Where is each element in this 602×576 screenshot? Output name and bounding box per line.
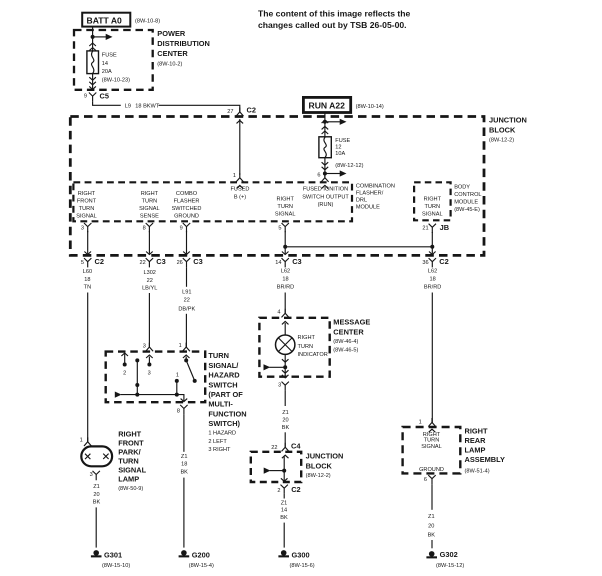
connector C2 pin 2 <box>277 485 300 495</box>
svg-text:SIGNAL: SIGNAL <box>422 211 443 217</box>
svg-text:C2: C2 <box>95 257 104 266</box>
wire Z1 18 BK <box>183 414 185 452</box>
svg-text:LAMP: LAMP <box>118 475 139 484</box>
svg-text:(8W-15-12): (8W-15-12) <box>436 563 464 569</box>
wire L60 18 TN <box>83 269 92 291</box>
svg-text:C5: C5 <box>100 91 109 100</box>
svg-text:3: 3 <box>81 226 84 232</box>
svg-text:DISTRIBUTION: DISTRIBUTION <box>157 39 210 48</box>
svg-text:L9: L9 <box>125 103 131 109</box>
lamp name label <box>118 430 146 493</box>
power distribution center box <box>74 29 210 90</box>
node message center splice <box>283 365 287 369</box>
switch contact 3 stub <box>147 357 151 377</box>
pin 5 right turn signal output <box>278 223 289 232</box>
svg-text:MULTI-: MULTI- <box>208 400 233 409</box>
junction block box <box>70 116 526 256</box>
connector pin 3 message center <box>278 382 289 391</box>
svg-text:6: 6 <box>424 477 427 483</box>
svg-text:1: 1 <box>80 438 83 444</box>
svg-text:1: 1 <box>233 173 236 179</box>
svg-text:FRONT: FRONT <box>118 439 144 448</box>
svg-text:REAR: REAR <box>465 436 487 445</box>
svg-text:L62: L62 <box>281 269 290 275</box>
svg-text:SWITCH): SWITCH) <box>208 419 240 428</box>
svg-text:2: 2 <box>277 488 280 494</box>
svg-text:G300: G300 <box>292 551 310 560</box>
svg-text:RUN A22: RUN A22 <box>309 101 346 111</box>
node batt splice <box>91 35 95 39</box>
svg-text:RIGHT: RIGHT <box>424 196 442 202</box>
ground G301 <box>91 550 130 569</box>
svg-text:C2: C2 <box>247 105 256 114</box>
svg-text:2: 2 <box>123 371 126 377</box>
connector C3 pin 14 <box>275 257 301 267</box>
svg-text:FLASHER/: FLASHER/ <box>356 191 384 197</box>
node run splice <box>323 120 327 124</box>
svg-text:(8W-15-6): (8W-15-6) <box>290 563 315 569</box>
connector C2 pin 5 <box>81 257 104 267</box>
svg-text:CENTER: CENTER <box>333 328 364 337</box>
svg-text:(8W-51-4): (8W-51-4) <box>465 469 490 475</box>
svg-text:SIGNAL: SIGNAL <box>421 444 442 450</box>
svg-text:(PART OF: (PART OF <box>208 390 243 399</box>
pin 9 combo flasher switched ground <box>180 223 191 232</box>
pin 21 JB body control module <box>422 223 449 233</box>
svg-text:18: 18 <box>429 277 435 283</box>
fuse F12 <box>319 137 364 169</box>
svg-text:MODULE: MODULE <box>356 205 380 211</box>
connector pin 3 lamp <box>90 471 100 480</box>
svg-text:36: 36 <box>422 260 428 266</box>
node splice at BCM column <box>430 245 434 249</box>
svg-text:27: 27 <box>227 109 233 115</box>
svg-text:COMBINATION: COMBINATION <box>356 184 395 190</box>
right rear lamp name label <box>465 427 505 475</box>
svg-text:18 BKWT: 18 BKWT <box>135 103 160 109</box>
svg-text:G302: G302 <box>440 550 458 559</box>
svg-text:BR/RD: BR/RD <box>424 285 441 291</box>
ground G200 <box>179 550 214 569</box>
svg-text:G200: G200 <box>192 551 210 560</box>
node splice to BCM run <box>283 245 287 249</box>
svg-text:14: 14 <box>281 508 287 514</box>
wire into combination flasher <box>324 174 326 178</box>
node pin 6 splice <box>323 172 327 176</box>
svg-text:RIGHT: RIGHT <box>465 427 488 436</box>
svg-text:22: 22 <box>147 278 153 284</box>
svg-text:BLOCK: BLOCK <box>489 126 516 135</box>
wire L62 18 BR/RD right <box>424 269 441 291</box>
svg-text:14: 14 <box>102 61 108 67</box>
svg-text:DB/PK: DB/PK <box>178 306 195 312</box>
wire splice arrow from left <box>270 470 285 472</box>
svg-text:LAMP: LAMP <box>465 446 486 455</box>
svg-text:8: 8 <box>143 226 146 232</box>
svg-text:5: 5 <box>81 260 84 266</box>
svg-text:RIGHT: RIGHT <box>298 335 316 341</box>
connector chevrons at MC exit <box>282 370 289 373</box>
svg-text:ASSEMBLY: ASSEMBLY <box>465 455 505 464</box>
svg-text:L302: L302 <box>143 270 155 276</box>
svg-text:21: 21 <box>422 226 428 232</box>
connector C2 pin 36 <box>422 257 448 267</box>
svg-text:Z1: Z1 <box>181 454 188 460</box>
svg-text:FRONT: FRONT <box>77 199 97 205</box>
svg-text:(8W-10-14): (8W-10-14) <box>356 104 384 110</box>
svg-text:3: 3 <box>278 383 281 389</box>
svg-text:22: 22 <box>271 445 277 451</box>
wire run splice arrow right <box>325 121 340 123</box>
svg-text:RIGHT: RIGHT <box>276 196 294 202</box>
svg-text:SIGNAL: SIGNAL <box>118 466 146 475</box>
body control module box <box>414 182 451 220</box>
svg-text:FUNCTION: FUNCTION <box>208 409 246 418</box>
svg-text:(8W-46-4): (8W-46-4) <box>333 339 358 345</box>
svg-text:DRL: DRL <box>356 198 367 204</box>
svg-text:22: 22 <box>139 260 145 266</box>
ground G302 <box>426 550 464 569</box>
svg-text:TN: TN <box>84 285 91 291</box>
svg-text:26: 26 <box>177 260 183 266</box>
svg-text:9: 9 <box>84 94 87 100</box>
svg-text:JUNCTION: JUNCTION <box>489 116 527 125</box>
wire below fuse 12 <box>324 158 326 174</box>
svg-text:TURN: TURN <box>298 344 314 350</box>
turn signal / hazard switch box <box>106 351 247 453</box>
svg-text:5: 5 <box>278 226 281 232</box>
wire L302 22 LB/YL <box>142 270 157 291</box>
svg-text:1: 1 <box>419 420 422 426</box>
svg-text:JUNCTION: JUNCTION <box>306 452 344 461</box>
lamp right turn indicator <box>276 335 328 358</box>
svg-text:RIGHT: RIGHT <box>78 191 96 197</box>
svg-text:14: 14 <box>275 260 281 266</box>
node lower JB splice <box>282 469 286 473</box>
wire L62 18 BR/RD left <box>277 269 294 291</box>
svg-text:RIGHT: RIGHT <box>118 430 141 439</box>
svg-text:22: 22 <box>184 297 190 303</box>
wire Z1 20 BK rear <box>431 484 433 509</box>
svg-text:The content of this image refl: The content of this image reflects the <box>258 8 411 18</box>
svg-text:C3: C3 <box>156 257 165 266</box>
wire below indicator <box>284 354 286 375</box>
svg-text:C3: C3 <box>193 257 202 266</box>
svg-text:Z1: Z1 <box>281 500 288 506</box>
battery feed BATT A0 <box>82 13 160 27</box>
wire to indicator lamp <box>284 323 286 335</box>
svg-text:SWITCH: SWITCH <box>208 380 237 389</box>
svg-text:MODULE: MODULE <box>454 200 478 206</box>
wire through lower JB <box>283 457 285 481</box>
svg-text:2 LEFT: 2 LEFT <box>208 439 227 445</box>
connector chevrons below fuse 12 <box>322 162 329 165</box>
svg-text:JB: JB <box>440 223 449 232</box>
wire splice arrow right <box>93 36 106 38</box>
svg-text:TURN: TURN <box>277 204 293 210</box>
connector chevrons above fuse 12 <box>322 126 329 129</box>
svg-text:BR/RD: BR/RD <box>277 285 294 291</box>
svg-text:LB/YL: LB/YL <box>142 285 157 291</box>
switch contact 1 stub <box>175 373 179 395</box>
wire below fuse 14 <box>92 74 94 89</box>
svg-text:MESSAGE: MESSAGE <box>333 318 370 327</box>
wire col3 inside JB <box>186 231 188 254</box>
svg-text:TURN: TURN <box>118 457 139 466</box>
svg-text:(8W-10-23): (8W-10-23) <box>102 78 130 84</box>
svg-text:(RUN): (RUN) <box>318 202 334 208</box>
switch contact 2 stub <box>121 353 128 377</box>
svg-text:(8W-12-12): (8W-12-12) <box>335 163 363 169</box>
svg-text:FLASHER: FLASHER <box>174 199 200 205</box>
message center box <box>259 318 370 377</box>
combination flasher / DRL module box <box>73 182 352 221</box>
svg-text:BK: BK <box>180 470 188 476</box>
svg-text:(8W-10-2): (8W-10-2) <box>157 62 182 68</box>
pin 8 turn signal sense <box>143 223 154 232</box>
svg-text:(8W-12-2): (8W-12-2) <box>306 473 331 479</box>
svg-text:POWER: POWER <box>157 29 186 38</box>
svg-text:PARK/: PARK/ <box>118 448 140 457</box>
svg-text:18: 18 <box>84 277 90 283</box>
connector chevrons below fuse 14 <box>89 77 96 80</box>
ignition feed RUN A22 <box>303 97 384 112</box>
svg-text:20: 20 <box>93 492 99 498</box>
lamp right front park/turn signal <box>81 446 112 466</box>
wire BATT A0 to fuse <box>92 27 94 51</box>
wire C2-27 to fused B(+) <box>237 120 244 123</box>
svg-text:BLOCK: BLOCK <box>306 462 333 471</box>
svg-text:GROUND: GROUND <box>174 214 199 220</box>
svg-text:10A: 10A <box>335 151 345 157</box>
svg-text:(8W-12-2): (8W-12-2) <box>489 138 514 144</box>
svg-text:Z1: Z1 <box>428 514 435 520</box>
svg-text:TURN: TURN <box>208 351 229 360</box>
svg-text:C2: C2 <box>439 257 448 266</box>
switch blade right <box>184 357 197 383</box>
svg-text:SWITCHED: SWITCHED <box>172 206 202 212</box>
svg-text:CENTER: CENTER <box>157 49 188 58</box>
svg-text:12: 12 <box>335 145 341 151</box>
svg-text:(8W-45-E): (8W-45-E) <box>454 207 480 213</box>
wire L9 18 BKWT <box>93 102 121 106</box>
svg-text:Z1: Z1 <box>282 410 289 416</box>
svg-text:COMBO: COMBO <box>176 191 198 197</box>
svg-text:C2: C2 <box>291 485 300 494</box>
svg-text:20: 20 <box>282 417 288 423</box>
svg-text:3: 3 <box>90 472 93 478</box>
svg-text:FUSE: FUSE <box>102 53 117 59</box>
svg-text:(8W-15-4): (8W-15-4) <box>189 563 214 569</box>
svg-text:SWITCH OUTPUT: SWITCH OUTPUT <box>302 195 349 201</box>
svg-text:Z1: Z1 <box>93 484 100 490</box>
svg-text:1: 1 <box>176 373 179 379</box>
svg-text:3 RIGHT: 3 RIGHT <box>208 447 231 453</box>
switch hazard pole <box>135 358 139 394</box>
wire col1 inside JB <box>87 231 89 254</box>
svg-text:L62: L62 <box>428 269 437 275</box>
svg-text:BODY: BODY <box>454 185 470 191</box>
svg-text:BK: BK <box>282 425 290 431</box>
svg-text:(8W-15-10): (8W-15-10) <box>102 563 130 569</box>
svg-text:SIGNAL: SIGNAL <box>76 214 97 220</box>
svg-text:TURN: TURN <box>424 437 440 443</box>
wire L91 22 DB/PK <box>186 267 188 286</box>
wire col2 inside JB <box>148 231 150 254</box>
svg-text:changes called out by TSB 26-0: changes called out by TSB 26-05-00. <box>258 20 407 30</box>
svg-text:L91: L91 <box>182 289 191 295</box>
wire Z1 20 BK lamp <box>93 484 101 505</box>
svg-text:4: 4 <box>277 310 280 316</box>
svg-text:BATT A0: BATT A0 <box>87 15 123 25</box>
wire col4 inside JB <box>284 231 286 254</box>
svg-text:RIGHT: RIGHT <box>141 191 159 197</box>
svg-text:TURN: TURN <box>79 206 95 212</box>
connector C3 pin 26 <box>177 257 203 267</box>
svg-text:(8W-10-8): (8W-10-8) <box>135 19 160 25</box>
svg-text:BK: BK <box>93 500 101 506</box>
wire col5 inside JB <box>431 232 433 254</box>
svg-text:3: 3 <box>143 344 146 350</box>
svg-text:SIGNAL: SIGNAL <box>275 211 296 217</box>
connector C3 pin 22 <box>139 257 165 267</box>
svg-text:GROUND: GROUND <box>419 467 444 473</box>
svg-text:SIGNAL/: SIGNAL/ <box>208 361 238 370</box>
pin 3 right front turn signal output <box>81 223 92 232</box>
svg-text:6: 6 <box>317 172 320 178</box>
wire link splice <box>285 246 432 248</box>
junction block lower box <box>251 452 344 482</box>
svg-text:20: 20 <box>428 524 434 530</box>
svg-text:1: 1 <box>179 343 182 349</box>
right rear lamp assembly box <box>403 427 461 473</box>
svg-text:B (+): B (+) <box>234 195 246 201</box>
svg-text:18: 18 <box>181 462 187 468</box>
svg-text:C3: C3 <box>292 257 301 266</box>
fuse F14 <box>87 51 130 84</box>
svg-text:L60: L60 <box>83 269 92 275</box>
wire Z1 14 BK <box>283 494 285 499</box>
svg-text:9: 9 <box>180 226 183 232</box>
svg-text:BK: BK <box>428 532 436 538</box>
svg-text:(8W-46-5): (8W-46-5) <box>333 347 358 353</box>
svg-text:8: 8 <box>177 408 180 414</box>
svg-text:FUSED: FUSED <box>231 187 250 193</box>
svg-text:FUSE: FUSE <box>335 138 350 144</box>
ground G300 <box>278 550 314 569</box>
svg-text:G301: G301 <box>104 551 122 560</box>
connector C5 pin 9 <box>84 91 109 102</box>
connector chevrons above fuse 14 <box>89 43 96 46</box>
body control module name label <box>454 185 481 214</box>
combination flasher name label <box>356 184 395 211</box>
svg-text:18: 18 <box>282 277 288 283</box>
wire Z1 20 BK message center <box>284 391 286 406</box>
wire pin6 splice arrow right <box>325 173 340 175</box>
svg-text:BK: BK <box>280 515 288 521</box>
svg-text:FUSED IGNITION: FUSED IGNITION <box>303 187 348 193</box>
connector pin 8 switch output <box>177 405 188 414</box>
svg-text:20A: 20A <box>102 69 112 75</box>
connector C2 pin 27 <box>227 105 256 116</box>
connector pin 6 ground <box>424 475 436 484</box>
svg-text:SENSE: SENSE <box>140 214 159 220</box>
wire splice arrow from left <box>269 366 285 368</box>
wire switch common bus <box>121 395 184 401</box>
wire RUN A22 into junction block <box>324 113 326 137</box>
svg-text:(8W-50-9): (8W-50-9) <box>118 486 143 492</box>
svg-text:TURN: TURN <box>425 204 441 210</box>
svg-text:HAZARD: HAZARD <box>208 371 240 380</box>
svg-text:TURN: TURN <box>142 199 158 205</box>
svg-text:3: 3 <box>148 370 151 376</box>
svg-text:1 HAZARD: 1 HAZARD <box>208 430 236 436</box>
svg-text:C4: C4 <box>291 441 301 450</box>
connector C4 pin 22 <box>271 441 301 451</box>
svg-text:INDICATOR: INDICATOR <box>298 352 328 358</box>
svg-text:CONTROL: CONTROL <box>454 192 481 198</box>
svg-text:SIGNAL: SIGNAL <box>139 206 160 212</box>
